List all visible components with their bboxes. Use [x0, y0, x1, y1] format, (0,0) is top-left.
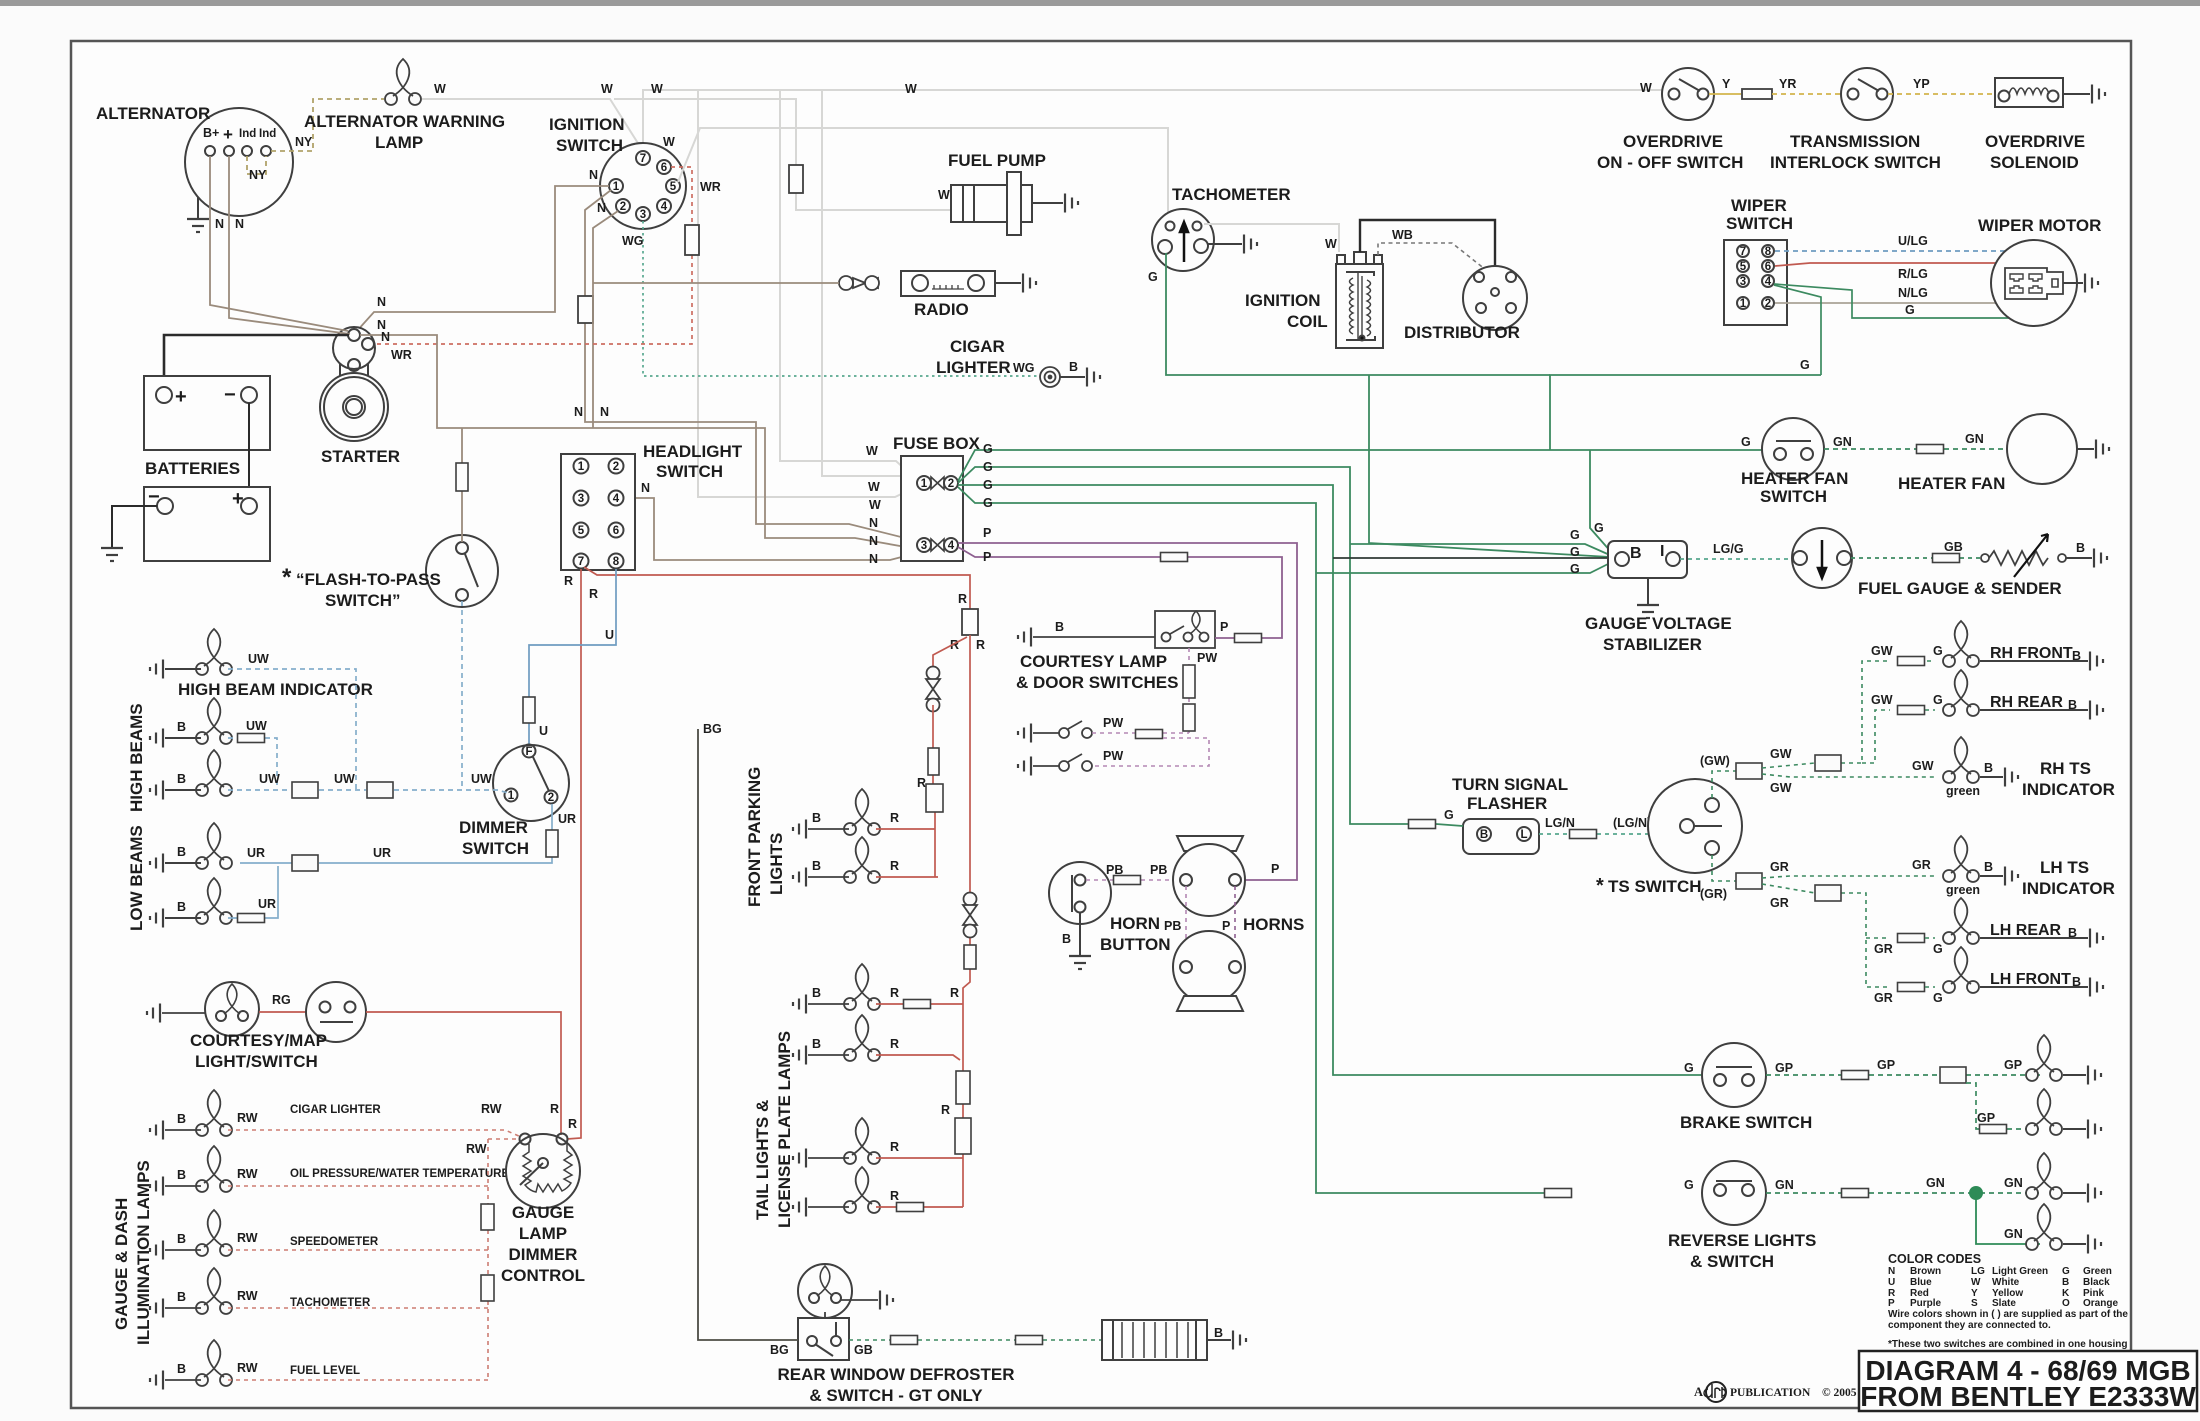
svg-text:BG: BG — [703, 722, 722, 736]
svg-text:W: W — [866, 444, 878, 458]
wire GN reverse to lamps — [1766, 1192, 2040, 1194]
svg-text:1: 1 — [1740, 298, 1747, 310]
wire UR dimmer pin2 to low beams — [240, 804, 552, 863]
wire PW door switch 1 — [1092, 732, 1189, 734]
wire GB switch to element — [849, 1339, 1102, 1341]
wire R headlight pin7 to tail light trunk — [584, 567, 970, 609]
svg-text:I: I — [1660, 543, 1664, 560]
svg-text:2: 2 — [613, 461, 619, 473]
svg-text:B: B — [177, 1168, 186, 1182]
svg-text:G: G — [1933, 942, 1943, 956]
svg-text:OVERDRIVE: OVERDRIVE — [1985, 132, 2085, 151]
svg-text:LICENSE PLATE LAMPS: LICENSE PLATE LAMPS — [775, 1031, 794, 1228]
fuse box — [901, 456, 963, 561]
svg-text:IGNITION: IGNITION — [549, 115, 625, 134]
svg-text:Light Green: Light Green — [1992, 1266, 2048, 1277]
svg-text:N/LG: N/LG — [1898, 286, 1928, 300]
svg-text:B: B — [1630, 545, 1642, 562]
wire GR TS to resistor — [1712, 855, 1736, 881]
starter solenoid — [333, 327, 375, 383]
starter motor — [320, 373, 388, 441]
wire PW door switch 2 link — [1092, 738, 1209, 766]
svg-text:B: B — [177, 900, 186, 914]
svg-text:G: G — [983, 442, 993, 456]
svg-text:G: G — [1933, 693, 1943, 707]
svg-text:UW: UW — [471, 772, 492, 786]
fuse (P2) — [1161, 553, 1188, 562]
reverse lamp 2 — [2026, 1204, 2062, 1250]
svg-text:W: W — [601, 82, 613, 96]
svg-text:DIMMER: DIMMER — [459, 818, 528, 837]
svg-text:N: N — [215, 217, 224, 231]
svg-text:TACHOMETER: TACHOMETER — [1172, 185, 1291, 204]
svg-text:WR: WR — [391, 348, 412, 362]
svg-text:FLASHER: FLASHER — [1467, 794, 1547, 813]
svg-text:GAUGE & DASH: GAUGE & DASH — [112, 1198, 131, 1330]
ground (defroster lamp) — [841, 1299, 878, 1301]
svg-text:R: R — [941, 1103, 950, 1117]
svg-text:+: + — [223, 125, 233, 144]
wire UW flash-to-pass to beam trunk — [461, 601, 463, 789]
resistor (RH rear) — [1898, 706, 1925, 715]
svg-text:GAUGE VOLTAGE: GAUGE VOLTAGE — [1585, 614, 1732, 633]
svg-text:N: N — [235, 217, 244, 231]
svg-text:W: W — [1640, 81, 1652, 95]
svg-text:COURTESY/MAP: COURTESY/MAP — [190, 1031, 327, 1050]
svg-text:G: G — [1570, 545, 1580, 559]
wire NY alternator Ind loop — [247, 156, 266, 174]
svg-text:© 2005: © 2005 — [1822, 1387, 1857, 1399]
svg-text:Slate: Slate — [1992, 1298, 2016, 1309]
gauge lamp oil pressure — [196, 1146, 232, 1192]
ground (RH front) — [1980, 660, 2088, 662]
resistor (GR mid) — [1815, 885, 1841, 901]
svg-text:ON - OFF SWITCH: ON - OFF SWITCH — [1597, 153, 1743, 172]
svg-text:W: W — [1971, 1277, 1981, 1288]
high beam indicator — [196, 629, 232, 675]
resistor (UW trunk 2) — [367, 782, 393, 798]
svg-text:SWITCH: SWITCH — [1726, 214, 1793, 233]
svg-text:PB: PB — [1150, 863, 1167, 877]
battery 1 — [144, 376, 270, 450]
ground (defroster element) — [1207, 1339, 1231, 1341]
svg-text:B: B — [1214, 1326, 1223, 1340]
fuse (N leg) — [578, 296, 593, 323]
wire G tachometer down-left trunk — [1166, 253, 1610, 557]
wire RW vertical trunk — [488, 1139, 518, 1380]
svg-text:TAIL LIGHTS &: TAIL LIGHTS & — [753, 1100, 772, 1220]
resistor (RH front) — [1898, 657, 1925, 666]
svg-text:WR: WR — [700, 180, 721, 194]
svg-text:R: R — [890, 1189, 899, 1203]
fuel pump — [951, 172, 1032, 235]
svg-text:GW: GW — [1871, 644, 1893, 658]
front parking lamp 1 — [844, 789, 880, 835]
resistor (PW 1) — [1183, 665, 1195, 698]
battery 2 — [144, 487, 270, 561]
wire N starter to east — [360, 335, 917, 549]
wire GR lower to rear/front — [1762, 884, 1890, 987]
svg-text:5: 5 — [1740, 261, 1747, 273]
svg-text:HEATER FAN: HEATER FAN — [1741, 469, 1848, 488]
svg-text:DISTRIBUTOR: DISTRIBUTOR — [1404, 323, 1520, 342]
wire N flash-to-pass feed — [461, 428, 463, 542]
tail lamp 3 — [844, 1118, 880, 1164]
svg-text:B: B — [177, 720, 186, 734]
svg-text:SWITCH: SWITCH — [656, 462, 723, 481]
svg-text:5: 5 — [578, 525, 585, 537]
svg-text:U: U — [605, 628, 614, 642]
svg-text:R: R — [950, 986, 959, 1000]
low beam lamp 2 — [196, 878, 232, 924]
svg-text:GR: GR — [1770, 860, 1789, 874]
svg-text:RW: RW — [481, 1102, 502, 1116]
wire YR fuse to interlock — [1772, 93, 1840, 95]
svg-text:Blue: Blue — [1910, 1277, 1932, 1288]
svg-text:BG: BG — [770, 1343, 789, 1357]
svg-text:G: G — [983, 496, 993, 510]
svg-text:LH REAR: LH REAR — [1990, 922, 2062, 939]
svg-text:3: 3 — [1740, 276, 1746, 288]
svg-text:WG: WG — [1013, 361, 1035, 375]
svg-text:2: 2 — [948, 478, 954, 490]
wire BG defroster feed — [698, 729, 798, 1340]
wire W bus drop x822 to fuse pin 1 — [822, 90, 918, 483]
ground (wiper motor) — [2063, 282, 2083, 284]
courtesy/map light — [205, 982, 259, 1036]
svg-text:B: B — [1055, 620, 1064, 634]
RH TS indicator lamp — [1943, 737, 1979, 783]
wire N alternator + to starter — [229, 156, 350, 334]
wire R headlight pin7 down to dimmer control — [567, 569, 581, 1139]
wire GR upper to LH TS indicator — [1762, 876, 1935, 878]
resistor (courtesy P) — [1235, 634, 1262, 643]
LH front lamp — [1943, 947, 1979, 993]
wire P courtesy to resistor — [1215, 637, 1234, 639]
svg-text:HIGH BEAM INDICATOR: HIGH BEAM INDICATOR — [178, 680, 373, 699]
brake lamp 1 — [2026, 1035, 2062, 1081]
wire YP interlock to solenoid — [1888, 93, 1995, 95]
svg-text:W: W — [938, 188, 950, 202]
wire UW indicator to trunk — [228, 669, 356, 790]
svg-text:R: R — [568, 1117, 577, 1131]
svg-text:(LG/N): (LG/N) — [1613, 816, 1651, 830]
fuse (U) — [523, 697, 535, 723]
svg-text:PW: PW — [1103, 716, 1123, 730]
wire G1a branch to stabilizer B — [1590, 450, 1612, 553]
wire W bus to bowtie and fuse box pin 1 — [698, 90, 918, 497]
svg-text:G: G — [1594, 521, 1604, 535]
svg-text:WG: WG — [622, 234, 644, 248]
svg-text:N: N — [641, 481, 650, 495]
svg-text:B: B — [2062, 1277, 2069, 1288]
svg-text:OIL PRESSURE/WATER TEMPERATURE: OIL PRESSURE/WATER TEMPERATURE — [290, 1168, 509, 1180]
ground (fuel sender) — [2066, 557, 2092, 559]
svg-text:7: 7 — [640, 153, 646, 165]
tach needle — [1180, 222, 1188, 262]
svg-text:Green: Green — [2083, 1266, 2112, 1277]
resistor (LG/N) — [1570, 830, 1597, 839]
svg-text:Y: Y — [1722, 77, 1731, 91]
ground (reverse lamp 2) — [2063, 1243, 2086, 1245]
bowtie fuse (parking chain) — [926, 667, 940, 712]
wire GB gauge to sender — [1851, 557, 1981, 559]
gauge lamp cigar lighter — [196, 1090, 232, 1136]
svg-text:NY: NY — [295, 135, 313, 149]
svg-text:IGNITION: IGNITION — [1245, 291, 1321, 310]
svg-text:LOW BEAMS: LOW BEAMS — [127, 825, 146, 931]
svg-text:ALTERNATOR WARNING: ALTERNATOR WARNING — [304, 112, 505, 131]
svg-text:(GR): (GR) — [1700, 887, 1727, 901]
svg-text:FROM BENTLEY E2333W: FROM BENTLEY E2333W — [1860, 1381, 2196, 1412]
fuel sender rheostat — [1981, 534, 2066, 577]
svg-text:LAMP: LAMP — [375, 133, 423, 152]
svg-text:N: N — [1888, 1266, 1895, 1277]
defroster element — [1102, 1320, 1207, 1360]
svg-text:TRANSMISSION: TRANSMISSION — [1790, 132, 1920, 151]
wiper motor — [1991, 240, 2077, 326]
svg-text:PW: PW — [1197, 651, 1217, 665]
wire UR low beam 2 — [228, 866, 278, 918]
svg-text:GW: GW — [1770, 781, 1792, 795]
svg-text:6: 6 — [661, 162, 667, 174]
resistor (PW 2) — [1183, 704, 1195, 731]
resistor (GP 1) — [1842, 1071, 1869, 1080]
wire GN heater fan switch to fan — [1824, 448, 2007, 450]
svg-text:GN: GN — [1926, 1176, 1945, 1190]
wire G to flasher — [1395, 824, 1463, 826]
title box — [1859, 1351, 2197, 1411]
svg-text:HORN: HORN — [1110, 914, 1160, 933]
svg-text:G: G — [2062, 1266, 2070, 1277]
svg-text:RG: RG — [272, 993, 291, 1007]
svg-text:LH TS: LH TS — [2040, 858, 2089, 877]
svg-text:FUEL LEVEL: FUEL LEVEL — [290, 1365, 360, 1377]
svg-text:GR: GR — [1874, 942, 1893, 956]
wire NY to warning lamp — [271, 99, 384, 151]
gauge lamp dimmer control — [506, 1134, 580, 1209]
svg-text:UR: UR — [258, 897, 276, 911]
svg-text:FUSE BOX: FUSE BOX — [893, 434, 981, 453]
reverse switch — [1702, 1161, 1766, 1225]
svg-text:U/LG: U/LG — [1898, 234, 1928, 248]
svg-text:WB: WB — [1392, 228, 1413, 242]
ground (fuel pump) — [1032, 202, 1063, 204]
svg-text:CIGAR: CIGAR — [950, 337, 1005, 356]
tail lamp 1 — [844, 964, 880, 1010]
wire P2 fuse pin4 to courtesy lamp — [958, 547, 1282, 638]
svg-text:UW: UW — [334, 772, 355, 786]
svg-text:1: 1 — [578, 461, 585, 473]
svg-text:P: P — [1271, 862, 1279, 876]
wire radio feed — [593, 282, 839, 284]
page top strip — [0, 0, 2200, 6]
LH rear lamp — [1943, 898, 1979, 944]
resistor (LH rear) — [1898, 934, 1925, 943]
svg-text:−: − — [224, 384, 236, 406]
svg-text:R: R — [890, 811, 899, 825]
wire UW high beam trunk to dimmer pin1 — [228, 790, 508, 793]
svg-text:B: B — [1480, 829, 1488, 841]
svg-text:G: G — [1905, 303, 1915, 317]
resistor (GP 3) — [1980, 1125, 2007, 1134]
TS switch — [1648, 779, 1742, 873]
resistor (RW trunk 1) — [481, 1204, 494, 1230]
svg-text:PB: PB — [1164, 919, 1181, 933]
wire W ignition pin5 to tach line — [678, 128, 1168, 216]
svg-text:PUBLICATION: PUBLICATION — [1730, 1387, 1811, 1399]
turn signal flasher — [1463, 819, 1539, 854]
svg-text:A: A — [1694, 1385, 1703, 1399]
wire G4 fuse pin2 to reverse trunk — [958, 487, 1614, 1193]
ground (LH TS) — [1980, 875, 2003, 877]
low beam lamp 1 — [196, 823, 232, 869]
svg-text:RH REAR: RH REAR — [1990, 694, 2063, 711]
svg-text:W: W — [868, 480, 880, 494]
wire N pin2 leg — [593, 211, 618, 428]
resistor (UR lb2) — [238, 914, 265, 923]
svg-text:COURTESY LAMP: COURTESY LAMP — [1020, 652, 1167, 671]
svg-text:LIGHTS: LIGHTS — [767, 833, 786, 895]
ground (LH front) — [1980, 986, 2088, 988]
wire GW TS to resistor — [1712, 771, 1736, 798]
svg-text:GP: GP — [1977, 1111, 1995, 1125]
ground (brake lamp 1) — [2063, 1074, 2086, 1076]
wire G3 branch to stabilizer B (dark) — [1333, 557, 1616, 559]
svg-text:P: P — [983, 526, 991, 540]
resistor (tail 4) — [897, 1203, 924, 1212]
svg-text:WIPER: WIPER — [1731, 196, 1787, 215]
defroster lamp — [798, 1264, 852, 1318]
defroster switch box — [798, 1312, 849, 1360]
wire W bus drop x780 to fuse pin 1 — [780, 90, 918, 481]
svg-text:B+: B+ — [203, 126, 219, 140]
svg-text:2: 2 — [548, 792, 554, 804]
brake lamp 2 — [2026, 1089, 2062, 1135]
svg-text:GB: GB — [854, 1343, 873, 1357]
svg-text:R: R — [917, 776, 926, 790]
resistor (tail chain v2) — [955, 1118, 971, 1154]
svg-text:2: 2 — [620, 201, 626, 213]
wiper switch — [1724, 240, 1787, 325]
svg-text:P: P — [1888, 1298, 1895, 1309]
transmission interlock switch — [1841, 68, 1893, 120]
wire LG/N flasher to TS switch — [1539, 827, 1680, 834]
alternator — [185, 108, 293, 216]
radio — [901, 271, 995, 296]
courtesy/map switch — [306, 982, 366, 1042]
svg-text:INDICATOR: INDICATOR — [2022, 780, 2115, 799]
ground (battery 2) — [112, 506, 157, 547]
svg-text:& SWITCH: & SWITCH — [1690, 1252, 1774, 1271]
tail chain top — [963, 635, 970, 1207]
wire GP brake to lamps — [1766, 1074, 2040, 1076]
svg-text:O: O — [2062, 1298, 2070, 1309]
wire GW upper to front/rear — [1762, 661, 1890, 768]
svg-text:GR: GR — [1770, 896, 1789, 910]
svg-text:1: 1 — [508, 790, 515, 802]
svg-text:3: 3 — [640, 209, 646, 221]
svg-text:HEADLIGHT: HEADLIGHT — [643, 442, 743, 461]
wire GP branch lamp 2 — [1966, 1083, 2040, 1129]
wire R/LG wiper pin6 to motor — [1775, 263, 2015, 273]
svg-text:N: N — [600, 405, 609, 419]
svg-text:N: N — [597, 201, 606, 215]
ground (radio) — [995, 282, 1021, 284]
svg-text:SWITCH: SWITCH — [462, 839, 529, 858]
ground (courtesy B) — [1018, 628, 1031, 647]
svg-text:Ind: Ind — [259, 128, 276, 140]
svg-text:STABILIZER: STABILIZER — [1603, 635, 1702, 654]
wire RW oil row — [228, 1185, 488, 1187]
ground (overdrive solenoid) — [2063, 93, 2090, 95]
ground (brake lamp 2) — [2063, 1128, 2086, 1130]
headlight switch — [561, 454, 635, 570]
svg-text:INDICATOR: INDICATOR — [2022, 879, 2115, 898]
svg-text:RH TS: RH TS — [2040, 759, 2091, 778]
svg-text:GN: GN — [1833, 435, 1852, 449]
fuse (UR) — [546, 830, 558, 857]
svg-text:4: 4 — [948, 540, 955, 552]
resistor (GW) — [1736, 763, 1762, 779]
wire R parking 1 — [876, 828, 935, 830]
svg-text:6: 6 — [613, 525, 619, 537]
wire RW cigar lighter row — [228, 1130, 521, 1137]
svg-text:B: B — [1984, 860, 1993, 874]
svg-text:UW: UW — [259, 772, 280, 786]
svg-text:Purple: Purple — [1910, 1298, 1942, 1309]
svg-text:OVERDRIVE: OVERDRIVE — [1623, 132, 1723, 151]
svg-text:6: 6 — [1765, 261, 1771, 273]
svg-text:ALTERNATOR: ALTERNATOR — [96, 104, 210, 123]
resistor (GB 1) — [891, 1336, 918, 1345]
overdrive on-off switch — [1662, 68, 1714, 120]
svg-text:GR: GR — [1874, 991, 1893, 1005]
high beam lamp 2 — [196, 750, 232, 796]
ignition coil — [1336, 252, 1383, 348]
resistor (PB) — [1114, 876, 1141, 885]
front parking lamp 2 — [844, 837, 880, 883]
svg-text:LIGHT/SWITCH: LIGHT/SWITCH — [195, 1052, 318, 1071]
svg-text:BATTERIES: BATTERIES — [145, 459, 240, 478]
svg-text:LG: LG — [1971, 1266, 1985, 1277]
resistor (GW mid) — [1815, 755, 1841, 771]
svg-text:RW: RW — [466, 1142, 487, 1156]
wire P1 fuse pin4 to horns — [958, 543, 1297, 880]
ignition switch — [600, 143, 686, 229]
fuse (R trunk) — [962, 609, 978, 635]
svg-text:*: * — [1596, 875, 1604, 897]
svg-text:R/LG: R/LG — [1898, 267, 1928, 281]
svg-text:Orange: Orange — [2083, 1298, 2118, 1309]
svg-text:RADIO: RADIO — [914, 300, 969, 319]
svg-text:Ind: Ind — [239, 128, 256, 140]
svg-text:“FLASH-TO-PASS: “FLASH-TO-PASS — [296, 570, 441, 589]
svg-text:W: W — [869, 498, 881, 512]
alternator warning lamp — [385, 59, 421, 105]
svg-text:W: W — [651, 82, 663, 96]
svg-text:B: B — [177, 1362, 186, 1376]
svg-text:LG/N: LG/N — [1545, 816, 1575, 830]
svg-text:Wire colors shown in ( ) are s: Wire colors shown in ( ) are supplied as… — [1888, 1309, 2128, 1320]
brake switch — [1702, 1043, 1766, 1107]
svg-text:R: R — [890, 1140, 899, 1154]
svg-text:SPEEDOMETER: SPEEDOMETER — [290, 1236, 379, 1248]
svg-text:4: 4 — [1765, 276, 1772, 288]
svg-text:SWITCH: SWITCH — [1760, 487, 1827, 506]
svg-text:COLOR CODES: COLOR CODES — [1888, 1252, 1981, 1266]
svg-text:SWITCH: SWITCH — [556, 136, 623, 155]
